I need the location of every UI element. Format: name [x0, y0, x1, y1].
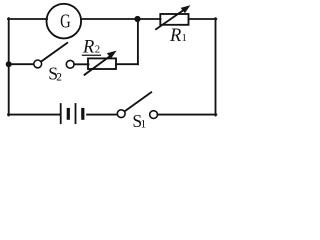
resistor R1: [156, 5, 190, 46]
wire middle left: [9, 63, 34, 65]
wire bottom left: [8, 114, 60, 116]
wire top left: [8, 18, 47, 20]
node junction dot top: [134, 16, 140, 22]
switch S1: [117, 92, 157, 131]
wire left vertical: [8, 18, 10, 115]
svg-text:R: R: [169, 26, 181, 46]
wire battery to S1: [87, 114, 117, 116]
svg-text:R: R: [82, 37, 94, 57]
battery: [61, 104, 83, 123]
svg-text:2: 2: [56, 72, 62, 84]
wire riser to top node: [137, 19, 139, 64]
wire top far right: [189, 18, 217, 20]
svg-text:G: G: [60, 11, 71, 33]
node junction dot left: [6, 61, 12, 67]
wire S2 to R2: [74, 63, 88, 65]
svg-text:2: 2: [95, 44, 100, 56]
wire top right: [82, 18, 161, 20]
svg-text:1: 1: [141, 118, 147, 130]
switch S2: [34, 43, 74, 84]
galvanometer G: [47, 4, 82, 39]
wire right vertical: [215, 18, 217, 115]
resistor R2: [82, 37, 117, 74]
wire R2 to riser: [116, 63, 138, 65]
wire bottom right: [158, 114, 217, 116]
svg-text:1: 1: [182, 32, 187, 44]
